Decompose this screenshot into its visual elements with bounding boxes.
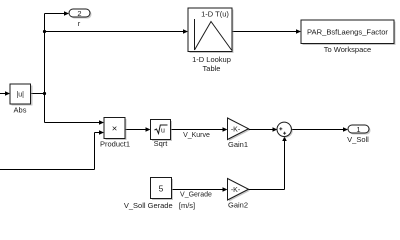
svg-text:|u|: |u|: [16, 92, 24, 99]
svg-text:Gain1: Gain1: [228, 140, 248, 149]
svg-text:V_Gerade: V_Gerade: [180, 191, 212, 198]
svg-text:1-D Lookup: 1-D Lookup: [192, 55, 231, 64]
svg-text:1-D T(u): 1-D T(u): [201, 9, 229, 18]
svg-text:Gain2: Gain2: [228, 201, 248, 210]
svg-text:Sqrt: Sqrt: [154, 139, 169, 148]
svg-text:V_Soll: V_Soll: [347, 135, 369, 144]
svg-text:Abs: Abs: [14, 106, 27, 115]
svg-text:V_Kurve: V_Kurve: [183, 132, 210, 139]
svg-text:-K-: -K-: [231, 187, 241, 194]
svg-text:To Workspace: To Workspace: [324, 45, 371, 54]
svg-text:V_Soll Gerade [m/s]: V_Soll Gerade [m/s]: [124, 201, 195, 210]
svg-text:PAR_BsfLaengs_Factor: PAR_BsfLaengs_Factor: [307, 27, 388, 36]
svg-text:u: u: [161, 128, 165, 135]
svg-text:Table: Table: [203, 64, 221, 73]
svg-text:5: 5: [159, 184, 164, 194]
svg-text:2: 2: [77, 9, 81, 18]
svg-text:1: 1: [356, 125, 360, 134]
svg-text:×: ×: [112, 124, 118, 135]
svg-text:Product1: Product1: [100, 140, 130, 149]
svg-text:-K-: -K-: [231, 127, 241, 134]
svg-text:r: r: [78, 19, 81, 28]
